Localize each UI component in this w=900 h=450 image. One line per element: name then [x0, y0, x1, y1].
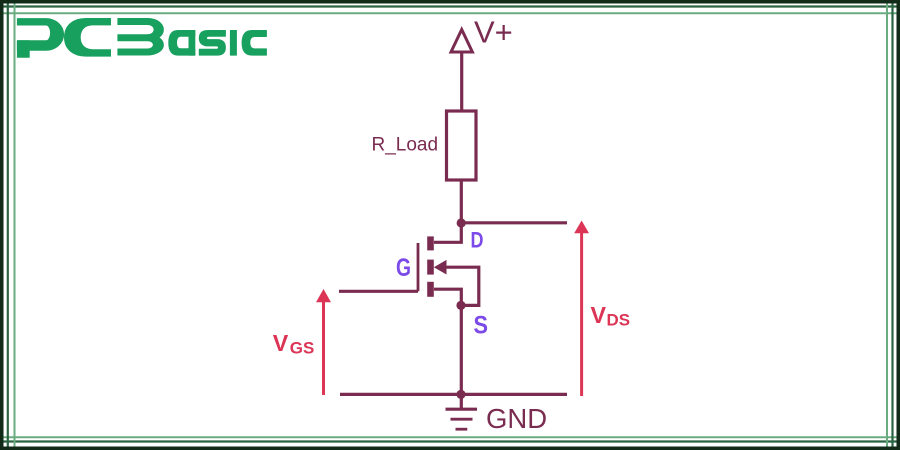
- svg-text:V+: V+: [474, 15, 513, 50]
- svg-text:D: D: [471, 227, 484, 252]
- svg-text:V: V: [591, 302, 607, 328]
- svg-text:R_Load: R_Load: [372, 135, 439, 156]
- svg-text:GND: GND: [486, 403, 547, 434]
- svg-text:DS: DS: [607, 311, 631, 330]
- svg-text:V: V: [273, 330, 289, 356]
- svg-text:S: S: [474, 311, 489, 339]
- svg-text:G: G: [396, 254, 411, 282]
- svg-text:GS: GS: [290, 339, 315, 358]
